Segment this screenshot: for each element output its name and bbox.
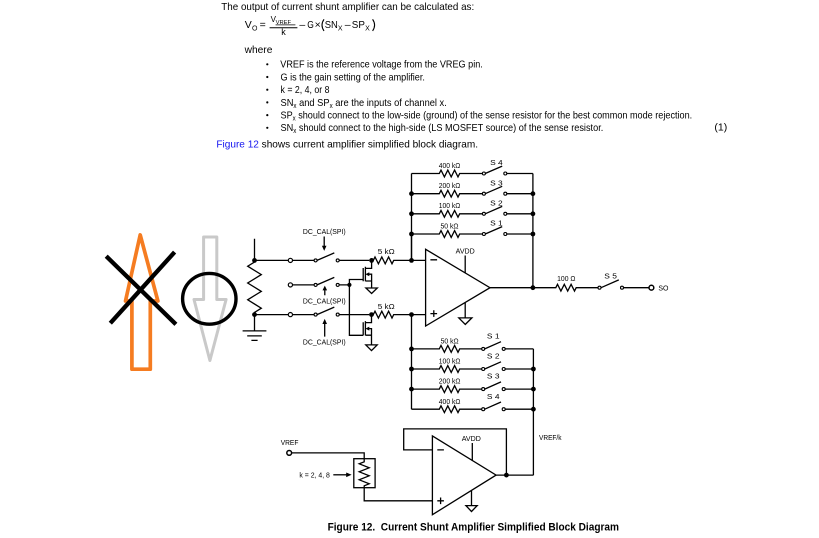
svg-text:DC_CAL(SPI): DC_CAL(SPI)	[303, 298, 346, 305]
svg-text:The output of current shunt am: The output of current shunt amplifier ca…	[221, 1, 474, 13]
svg-text:S 4: S 4	[490, 160, 503, 167]
svg-text:Figure 12. Current Shunt Ampl: Figure 12. Current Shunt Amplifier Simpl…	[328, 521, 619, 533]
svg-text:400 kΩ: 400 kΩ	[439, 163, 461, 170]
svg-text:400 kΩ: 400 kΩ	[439, 399, 461, 406]
svg-text:=: =	[260, 19, 266, 31]
svg-text:×: ×	[315, 19, 321, 31]
svg-text:S 5: S 5	[604, 273, 617, 280]
svg-text:X: X	[338, 26, 343, 33]
svg-text:(1): (1)	[714, 122, 727, 134]
svg-text:5 kΩ: 5 kΩ	[378, 249, 395, 256]
svg-text:SN: SN	[325, 19, 338, 31]
svg-text:S 1: S 1	[487, 334, 500, 341]
svg-text:k = 2, 4, 8: k = 2, 4, 8	[299, 472, 330, 479]
svg-text:X: X	[365, 26, 370, 33]
svg-text:G: G	[307, 19, 314, 31]
svg-text:AVDD: AVDD	[462, 436, 481, 443]
svg-text:S 3: S 3	[487, 374, 500, 381]
svg-text:k: k	[281, 27, 286, 37]
svg-text:where: where	[244, 44, 273, 56]
svg-text:100 Ω: 100 Ω	[557, 276, 575, 283]
svg-text:100 kΩ: 100 kΩ	[439, 203, 461, 210]
svg-text:O: O	[252, 26, 258, 33]
svg-text:5 kΩ: 5 kΩ	[378, 304, 395, 311]
svg-text:k = 2, 4, or 8: k = 2, 4, or 8	[281, 84, 330, 96]
svg-text:50 kΩ: 50 kΩ	[441, 338, 459, 345]
svg-text:SNx should connect to the high: SNx should connect to the high-side (LS …	[281, 122, 604, 135]
svg-text:V: V	[245, 19, 252, 31]
svg-text:AVDD: AVDD	[456, 249, 475, 256]
svg-text:DC_CAL(SPI): DC_CAL(SPI)	[303, 339, 346, 346]
svg-text:S 1: S 1	[490, 221, 503, 228]
svg-text:SPx should connect to the low-: SPx should connect to the low-side (grou…	[281, 110, 693, 123]
svg-text:VREF is the reference voltage: VREF is the reference voltage from the V…	[280, 59, 483, 71]
svg-text:–: –	[299, 19, 305, 31]
svg-text:S 2: S 2	[487, 354, 500, 361]
svg-text:Figure 12 shows current amplif: Figure 12 shows current amplifier simpli…	[216, 139, 478, 151]
svg-text:SNx and SPx are the inputs of: SNx and SPx are the inputs of channel x.	[281, 97, 447, 110]
svg-text:100 kΩ: 100 kΩ	[439, 359, 461, 366]
svg-text:VREF: VREF	[281, 440, 299, 447]
svg-text:–: –	[345, 19, 351, 31]
svg-text:G is the gain setting of the a: G is the gain setting of the amplifier.	[281, 71, 425, 83]
svg-text:SO: SO	[658, 286, 669, 293]
svg-text:VREF/k: VREF/k	[539, 435, 562, 442]
svg-text:S 2: S 2	[490, 200, 503, 207]
svg-text:DC_CAL(SPI): DC_CAL(SPI)	[303, 229, 346, 236]
svg-text:50 kΩ: 50 kΩ	[441, 223, 459, 230]
svg-text:S 4: S 4	[487, 394, 500, 401]
svg-text:SP: SP	[352, 19, 365, 31]
svg-text:200 kΩ: 200 kΩ	[439, 379, 461, 386]
svg-text:200 kΩ: 200 kΩ	[439, 183, 461, 190]
svg-text:S 3: S 3	[490, 180, 503, 187]
